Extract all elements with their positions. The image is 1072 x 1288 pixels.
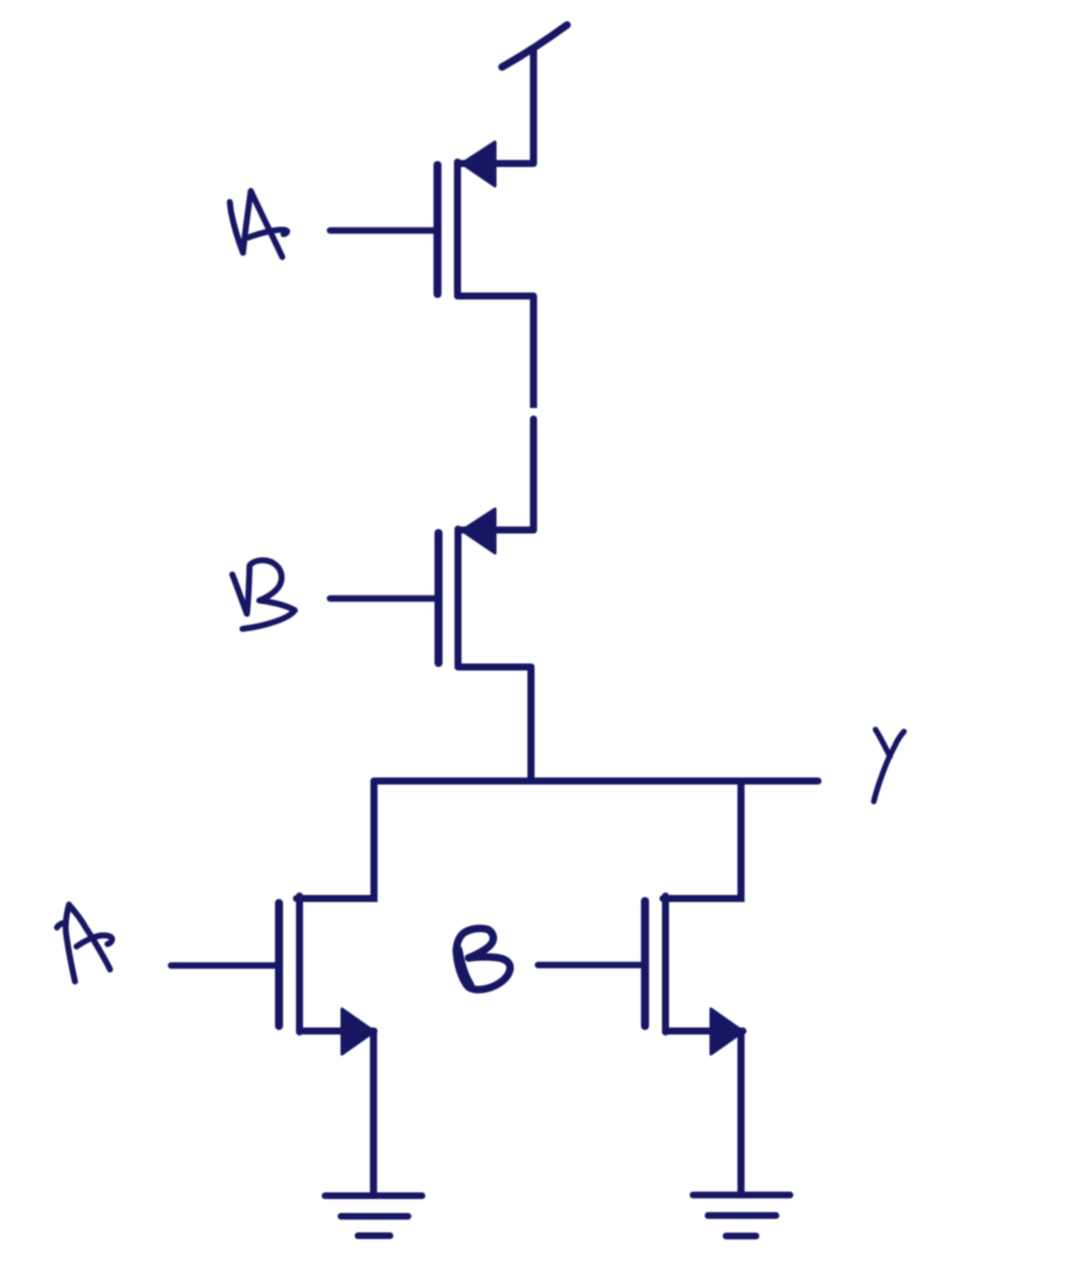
pmos M2 channel bar [455, 529, 462, 665]
power VDD symbol [502, 25, 567, 67]
nmos M3 source wire [300, 1027, 375, 1034]
nmos M4 gate wire [538, 962, 641, 969]
nmos M4 channel bar [662, 896, 669, 1032]
wire M3 source to ground [370, 1031, 377, 1194]
pmos M2 gate bar [435, 533, 443, 663]
pmos M2 gate wire [330, 595, 435, 602]
wire M1 drain to M2 source (upper segment) [530, 296, 537, 408]
wire M4 source to ground [737, 1031, 744, 1194]
label A (input A, left nmos) [57, 905, 112, 982]
ground symbol (left) [325, 1196, 422, 1236]
ground symbol (right) [693, 1195, 790, 1236]
wire M2 drain to output rail [527, 667, 534, 781]
pmos M2 drain wire [458, 663, 531, 670]
wire rail to nmos M3 drain [297, 781, 375, 899]
nmos M3 channel bar [296, 896, 303, 1032]
nmos M3 gate bar [275, 903, 283, 1026]
label B (input B, lower pmos) [232, 560, 294, 629]
pmos M2 source arrow [462, 509, 495, 553]
pmos M2 source wire [458, 526, 534, 533]
nmos M4 source wire [666, 1027, 744, 1034]
label A (input A, top pmos) [230, 191, 287, 257]
pmos M1 gate bar [434, 165, 442, 294]
nmos M3 source arrow [342, 1009, 374, 1054]
pmos M1 source wire [458, 160, 534, 167]
pmos M1 drain wire [458, 292, 534, 299]
nmos M4 gate bar [641, 901, 649, 1026]
pmos M1 source arrow [462, 142, 495, 186]
nmos M3 gate wire [171, 962, 275, 969]
label Y (output) [874, 730, 904, 802]
nmos M4 source arrow [711, 1009, 743, 1054]
wire rail to nmos M4 drain [663, 781, 741, 899]
wire VDD to M1 source [530, 49, 537, 164]
wire M1 drain to M2 source (lower segment after pen gap) [530, 419, 537, 530]
pmos M1 channel bar [454, 162, 461, 294]
output rail wire (node Y) [374, 777, 818, 784]
label B (input B, right nmos) [456, 928, 510, 989]
pmos M1 gate wire [330, 227, 434, 234]
